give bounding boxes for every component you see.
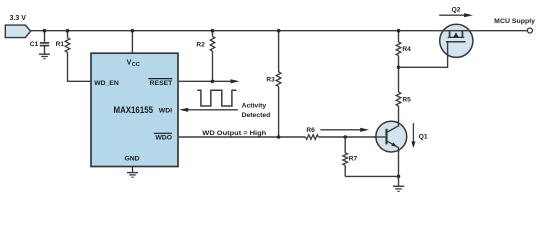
- node emitter/R7 junction: [397, 175, 401, 179]
- svg-text:WDO: WDO: [155, 135, 172, 142]
- node rail junction R4: [397, 29, 401, 33]
- svg-text:R1: R1: [56, 41, 65, 48]
- wire WDO output: [179, 136, 306, 138]
- svg-text:WD Output = High: WD Output = High: [202, 130, 266, 137]
- resistor R5: [396, 67, 411, 122]
- transistor Q1: [374, 121, 407, 152]
- wire WDI input with arrow: [179, 108, 238, 112]
- label Activity Detected: [242, 103, 271, 119]
- svg-text:RESET: RESET: [150, 80, 174, 87]
- node rail junction R1: [66, 29, 70, 33]
- svg-text:CC: CC: [132, 62, 140, 68]
- power flag 3.3V: [5, 15, 30, 37]
- svg-text:MCU Supply: MCU Supply: [494, 18, 535, 25]
- node MCU Supply terminal: [527, 28, 532, 33]
- svg-text:Q1: Q1: [419, 134, 428, 141]
- svg-text:Detected: Detected: [242, 112, 271, 119]
- resistor R1: [56, 31, 70, 53]
- node R6/R7 junction: [343, 135, 347, 139]
- wire VCC stub: [131, 31, 133, 54]
- resistor R2: [196, 31, 214, 82]
- svg-text:R5: R5: [402, 97, 411, 104]
- node rail junction C1: [43, 29, 47, 33]
- svg-text:C1: C1: [30, 41, 39, 48]
- capacitor C1: [30, 31, 49, 55]
- svg-text:WDI: WDI: [159, 108, 172, 115]
- transistor Q2: [399, 24, 473, 67]
- resistor R7: [343, 137, 358, 176]
- wire R6 to Q1 base: [318, 136, 386, 138]
- node rail junction R3: [277, 29, 281, 33]
- ground (C1): [39, 54, 50, 59]
- label Q2 with flow arrow: [439, 7, 473, 18]
- wire GND stub: [132, 167, 134, 173]
- svg-text:MAX16155: MAX16155: [114, 105, 154, 115]
- wire R7 to emitter node: [345, 175, 398, 177]
- node R2/RESET junction: [211, 80, 215, 84]
- wire top supply rail: [31, 30, 440, 32]
- ground (Q1 emitter): [393, 176, 404, 191]
- svg-text:R3: R3: [266, 76, 275, 83]
- clock waveform symbol: [197, 90, 236, 106]
- svg-text:R2: R2: [196, 42, 205, 49]
- svg-text:R4: R4: [402, 46, 411, 53]
- wire R1 to WD_EN: [68, 52, 92, 81]
- wire Q1 emitter down: [398, 150, 400, 176]
- resistor R4: [396, 31, 411, 68]
- svg-text:Activity: Activity: [242, 103, 267, 110]
- ground (U1 GND): [127, 173, 138, 178]
- svg-text:3.3 V: 3.3 V: [10, 15, 27, 22]
- wire Q2 drain to MCU Supply: [473, 30, 528, 32]
- resistor R3: [266, 31, 281, 137]
- svg-text:GND: GND: [124, 155, 139, 162]
- node rail junction VCC: [131, 29, 135, 33]
- svg-text:Q2: Q2: [452, 7, 461, 14]
- current direction arrow at Q1: [411, 123, 415, 148]
- node R3/WDO junction: [277, 135, 281, 139]
- svg-text:R6: R6: [306, 127, 315, 134]
- wire RESET output with arrow: [179, 79, 240, 83]
- node R4/R5 gate junction: [397, 66, 401, 70]
- svg-text:R7: R7: [349, 156, 358, 163]
- svg-text:WD_EN: WD_EN: [94, 80, 119, 87]
- resistor R6: [306, 127, 319, 140]
- op-amp U1 MAX16155 box: [91, 53, 178, 166]
- node rail junction R2: [211, 29, 215, 33]
- signal flow arrow to base: [320, 128, 369, 132]
